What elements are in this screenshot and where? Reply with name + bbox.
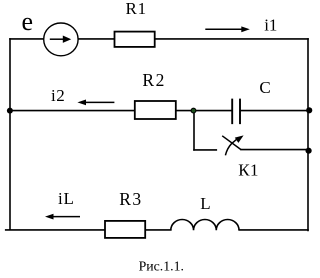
svg-text:iL: iL: [58, 189, 75, 208]
svg-text:L: L: [200, 194, 210, 213]
svg-text:i1: i1: [264, 16, 277, 35]
svg-text:К1: К1: [238, 160, 259, 179]
svg-text:R2: R2: [142, 70, 165, 90]
svg-text:C: C: [259, 78, 270, 97]
svg-text:R3: R3: [119, 189, 142, 209]
svg-text:Рис.1.1.: Рис.1.1.: [139, 258, 184, 273]
svg-text:i2: i2: [51, 86, 65, 105]
svg-text:R1: R1: [126, 0, 147, 18]
svg-text:e: e: [22, 7, 34, 36]
